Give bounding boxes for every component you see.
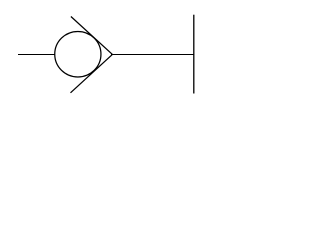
wire right port	[111, 54, 194, 56]
valve seat upper tangent line	[71, 17, 113, 55]
terminal bar (node T)	[193, 15, 195, 94]
wire left port	[18, 54, 55, 56]
check valve ball (circle)	[55, 31, 101, 76]
valve seat lower tangent line	[71, 54, 113, 92]
